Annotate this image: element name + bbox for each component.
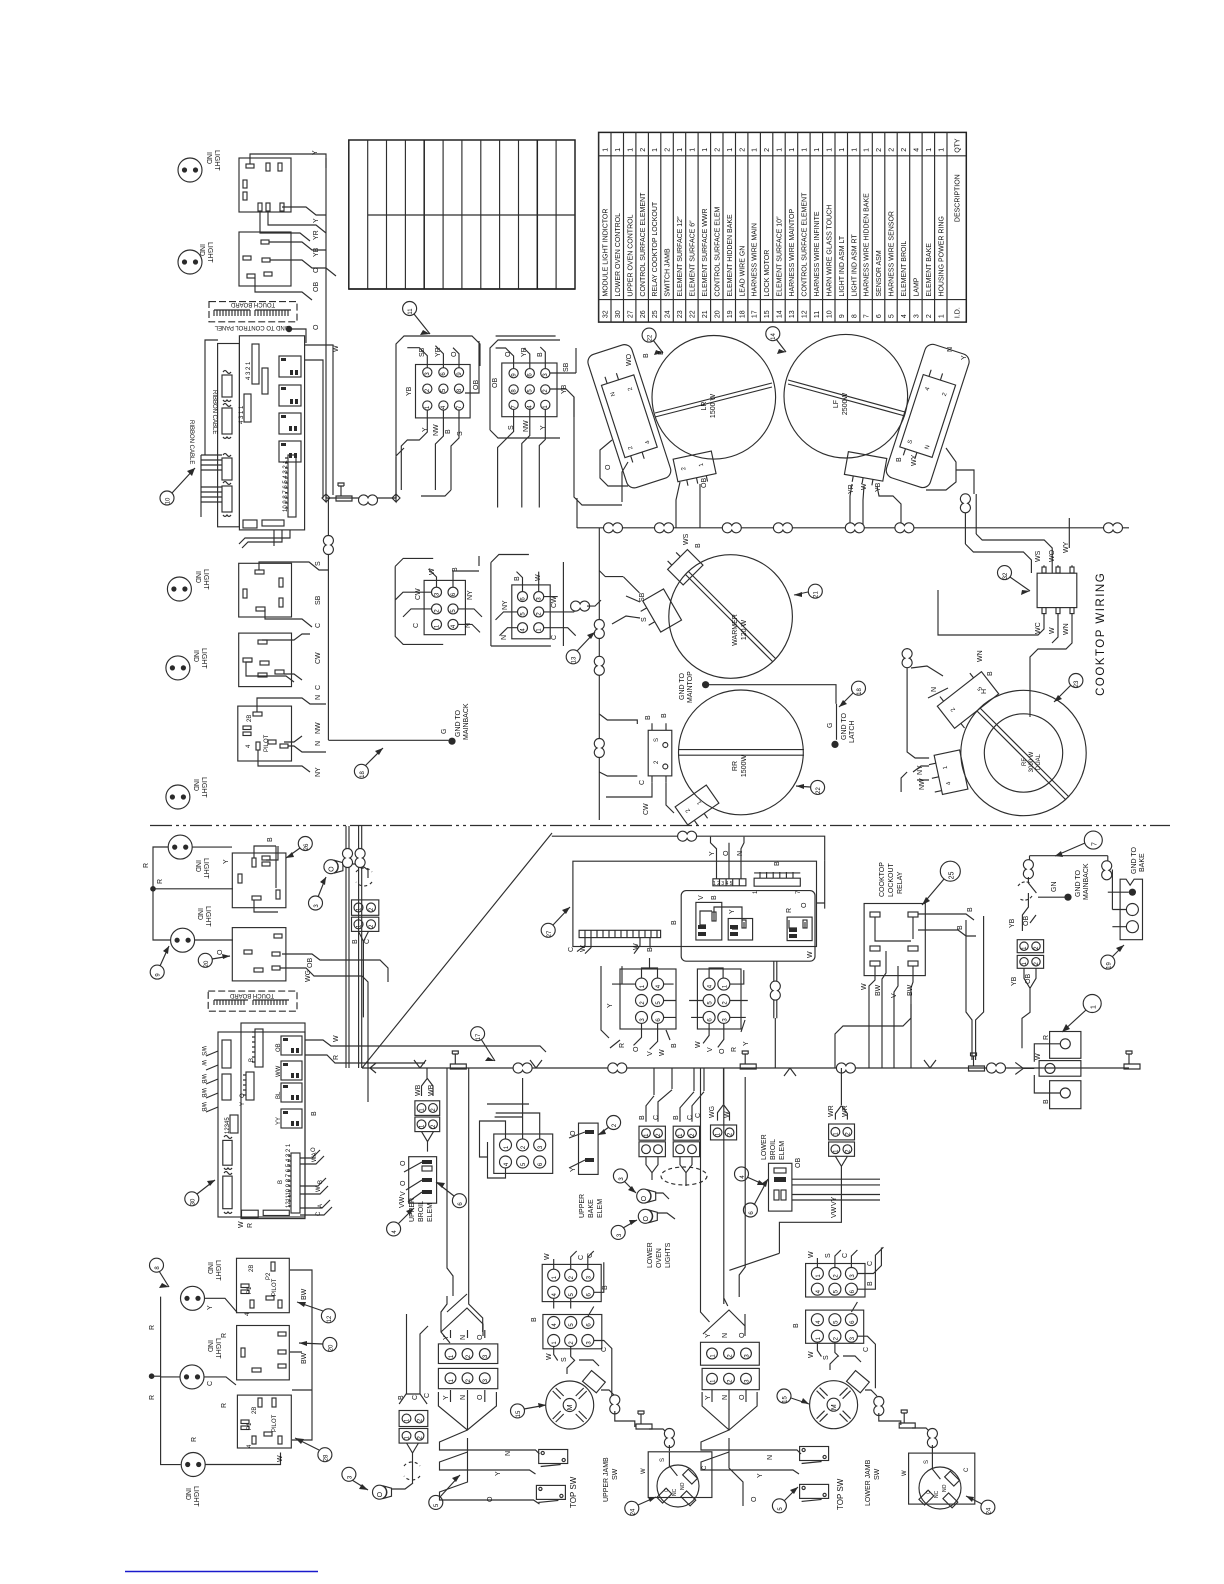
svg-text:WB: WB (428, 1084, 435, 1096)
svg-text:1: 1 (1091, 1005, 1098, 1009)
svg-text:7: 7 (1092, 842, 1099, 846)
sensor grid S3 (697, 969, 741, 1029)
svg-text:MAINBACK: MAINBACK (463, 703, 470, 740)
balloon 5b (772, 1487, 798, 1513)
svg-text:26: 26 (304, 843, 310, 850)
svg-text:LIGHTS: LIGHTS (665, 1242, 672, 1268)
connector pair BCC bottom-left (399, 1411, 428, 1444)
svg-text:1500 W: 1500 W (710, 394, 717, 419)
svg-text:13: 13 (789, 310, 796, 318)
svg-text:18: 18 (739, 310, 746, 318)
bolts on bus (450, 1051, 466, 1069)
svg-text:C: C (568, 947, 575, 952)
svg-text:1: 1 (690, 148, 697, 152)
svg-text:27: 27 (627, 310, 634, 318)
balloon 3d (342, 1467, 368, 1490)
svg-text:Y: Y (312, 150, 319, 155)
balloon 21 (794, 584, 822, 598)
connector pair CB (1x2 x2) (352, 900, 379, 932)
svg-text:N: N (501, 635, 508, 640)
connector box B3 pilot (238, 706, 292, 761)
balloon 26 (286, 837, 312, 859)
svg-text:2: 2 (901, 148, 908, 152)
svg-text:GND TO: GND TO (1131, 846, 1138, 874)
svg-text:ELEMENT HIDDEN BAKE: ELEMENT HIDDEN BAKE (727, 214, 734, 297)
svg-text:ELEM: ELEM (779, 1141, 786, 1160)
box C2 wires OB WG (280, 954, 388, 1102)
svg-text:B: B (661, 713, 668, 718)
svg-text:1: 1 (802, 148, 809, 152)
svg-text:W: W (277, 1455, 284, 1462)
svg-text:12: 12 (327, 1315, 333, 1322)
dashed rotate arc 2 (404, 1462, 420, 1466)
svg-text:1: 1 (926, 148, 933, 152)
svg-text:LIGHT: LIGHT (200, 777, 207, 798)
svg-text:O: O (719, 1048, 726, 1054)
svg-text:32: 32 (602, 310, 609, 318)
svg-text:N: N (722, 1395, 729, 1400)
svg-text:B: B (445, 429, 452, 434)
motor M1 collar (583, 1371, 606, 1393)
svg-text:Y: Y (709, 851, 716, 856)
svg-text:O: O (723, 850, 730, 856)
svg-text:LIGHT: LIGHT (200, 648, 207, 669)
svg-text:1: 1 (938, 314, 945, 318)
svg-text:LIGHT: LIGHT (214, 1260, 221, 1281)
svg-text:O: O (477, 1394, 484, 1400)
wire A1 top to bus (250, 154, 326, 168)
svg-text:11: 11 (814, 311, 821, 318)
lock sub R O (787, 917, 812, 941)
ind light LT2 (178, 250, 202, 274)
svg-text:P1: P1 (247, 1422, 253, 1430)
svg-text:PILOT: PILOT (264, 734, 270, 752)
svg-text:B: B (671, 1043, 678, 1048)
svg-text:30: 30 (615, 310, 622, 318)
svg-text:IND: IND (205, 152, 212, 164)
svg-text:1500W: 1500W (741, 755, 748, 778)
svg-text:Y: Y (223, 859, 230, 864)
svg-text:LOCKOUT: LOCKOUT (888, 862, 895, 897)
S5 wires (554, 1307, 612, 1397)
svg-text:O: O (313, 267, 320, 273)
svg-text:BAKE: BAKE (588, 1199, 595, 1218)
svg-text:LF: LF (833, 400, 840, 408)
svg-text:W: W (429, 568, 436, 575)
svg-text:RR: RR (732, 761, 739, 771)
wire above item27 (552, 836, 825, 860)
svg-text:ELEMENT BROIL: ELEMENT BROIL (901, 241, 908, 297)
element surface 6in LR 1500W (652, 336, 776, 460)
balloon 4a (387, 1208, 414, 1236)
balloon 32 (998, 566, 1031, 595)
svg-text:IND: IND (196, 908, 203, 920)
svg-text:Y: Y (313, 218, 320, 223)
svg-text:24: 24 (631, 1508, 637, 1515)
svg-text:C: C (687, 1115, 694, 1120)
svg-text:24: 24 (987, 1507, 993, 1514)
svg-text:YY: YY (276, 1117, 282, 1125)
svg-text:25: 25 (949, 872, 956, 880)
svg-text:WY: WY (911, 454, 918, 466)
svg-text:S: S (825, 1253, 832, 1258)
svg-text:BL: BL (276, 1091, 282, 1099)
svg-text:HARNESS WIRE INFINITE: HARNESS WIRE INFINITE (814, 211, 821, 297)
svg-text:10: 10 (166, 497, 172, 504)
svg-text:B: B (896, 457, 903, 462)
svg-text:SENSOR ASM: SENSOR ASM (876, 250, 883, 296)
grommets on bus (513, 1063, 532, 1073)
svg-text:NW: NW (433, 424, 440, 436)
bus right hook to power ring (1015, 1062, 1023, 1074)
svg-text:B: B (967, 907, 974, 912)
ind light LB1 (168, 835, 192, 859)
balloon 19 (1101, 945, 1124, 969)
2x3 grid H1 (424, 580, 465, 634)
svg-text:YB: YB (406, 386, 413, 396)
vertical strip conn (252, 344, 259, 384)
svg-text:21: 21 (702, 310, 709, 318)
svg-text:B: B (318, 1180, 324, 1184)
svg-text:H: H (981, 689, 988, 694)
svg-text:WARMER: WARMER (732, 614, 739, 646)
grid G2 outer route (490, 340, 622, 505)
svg-text:BW: BW (301, 1352, 308, 1364)
svg-text:B: B (537, 352, 544, 357)
svg-text:2: 2 (665, 148, 672, 152)
svg-text:SB: SB (563, 362, 570, 372)
sensor grid S1 (494, 1134, 553, 1173)
svg-text:NY: NY (467, 590, 474, 600)
LF bottom connector (843, 452, 886, 494)
svg-text:B: B (774, 861, 781, 866)
svg-text:W: W (808, 1351, 815, 1358)
ind light LT4 (166, 656, 190, 680)
svg-text:O: O (633, 1046, 640, 1052)
ind light LT5 (166, 785, 190, 809)
svg-text:1: 1 (826, 148, 833, 152)
svg-text:1: 1 (727, 148, 734, 152)
grid G2 (502, 363, 557, 417)
housing power ring (item 1) (1023, 1032, 1081, 1109)
svg-text:TOP SW: TOP SW (836, 1478, 845, 1510)
micro switch MS2a (800, 1447, 829, 1464)
svg-text:OB: OB (313, 282, 320, 292)
svg-text:22: 22 (690, 310, 697, 318)
comb strip 2 (246, 1072, 254, 1100)
svg-text:2: 2 (876, 148, 883, 152)
svg-text:LEAD WIRE GN: LEAD WIRE GN (739, 246, 746, 297)
bus vertical x326 (325, 158, 327, 498)
svg-text:1: 1 (864, 148, 871, 152)
svg-text:W: W (641, 1468, 647, 1474)
svg-text:R: R (149, 1395, 156, 1400)
balloon 2 (598, 1116, 621, 1136)
svg-text:B: B (957, 925, 964, 930)
LR connector wires to bus (600, 440, 700, 528)
svg-text:NW: NW (523, 420, 530, 432)
svg-text:C: C (664, 1488, 670, 1492)
lower oven lamp L3 (638, 1209, 657, 1223)
svg-text:S: S (823, 1355, 830, 1360)
svg-text:2: 2 (764, 148, 771, 152)
svg-text:18: 18 (360, 771, 366, 778)
svg-text:Y: Y (743, 1041, 750, 1046)
sensor grid S2 (left under item27) (620, 969, 676, 1029)
svg-text:1: 1 (627, 148, 634, 152)
svg-text:14: 14 (777, 310, 784, 318)
svg-text:WS: WS (683, 533, 690, 545)
WR funnel (729, 1068, 847, 1270)
balloon 24b (966, 1496, 995, 1514)
svg-text:C: C (639, 780, 646, 785)
broil wires left (404, 1162, 422, 1202)
item 32 terminal block (1037, 565, 1077, 615)
svg-text:CW: CW (643, 803, 650, 815)
RF connector 2 (lower) (917, 750, 968, 796)
svg-text:QTY: QTY (955, 138, 962, 153)
svg-text:19: 19 (727, 310, 734, 318)
svg-text:NW: NW (315, 722, 322, 734)
svg-text:DESCRIPTION: DESCRIPTION (955, 174, 962, 222)
svg-text:Y: Y (495, 1471, 502, 1476)
bottom tabs (242, 1210, 259, 1217)
long strip connector item27 (579, 930, 661, 937)
svg-text:RIBBON CABLE: RIBBON CABLE (211, 390, 217, 434)
svg-text:GND TO: GND TO (841, 712, 848, 740)
S3 routing (689, 968, 748, 1047)
RR connector wires (599, 714, 674, 813)
svg-text:C: C (413, 623, 420, 628)
lower control board (item 30) (200, 1023, 305, 1219)
svg-text:R: R (221, 1403, 228, 1408)
svg-text:13: 13 (572, 656, 578, 663)
svg-text:N: N (767, 1455, 774, 1460)
7 tooth comb (754, 872, 800, 886)
svg-text:OB: OB (276, 1043, 282, 1052)
svg-text:A: A (318, 1204, 324, 1208)
svg-text:N: N (505, 1451, 512, 1456)
svg-text:1: 1 (851, 148, 858, 152)
S4 wires (554, 1251, 604, 1309)
svg-text:4 3 2 1: 4 3 2 1 (246, 361, 252, 380)
svg-text:1: 1 (677, 148, 684, 152)
left multi-wires (201, 455, 222, 502)
sensor grid S4 (above motor1) (542, 1264, 601, 1301)
svg-text:B: B (793, 1323, 800, 1328)
RF wiring (901, 648, 929, 792)
svg-text:BW: BW (907, 984, 914, 996)
svg-text:B: B (673, 1115, 680, 1120)
svg-text:B: B (647, 947, 654, 952)
svg-text:Y: Y (422, 427, 429, 432)
svg-text:Y: Y (240, 1102, 246, 1106)
jamb switch J1 (641, 1452, 712, 1507)
svg-text:5: 5 (889, 314, 896, 318)
svg-text:WA: WA (312, 1153, 318, 1162)
svg-text:C: C (702, 1465, 708, 1470)
svg-text:SB: SB (639, 592, 646, 602)
grommets on main bus (604, 523, 623, 533)
svg-text:O: O (400, 1160, 407, 1166)
parts list table (599, 132, 967, 322)
svg-text:GND TO: GND TO (1075, 869, 1082, 897)
svg-text:N: N (722, 1333, 729, 1338)
svg-text:2B: 2B (249, 1265, 255, 1272)
YB OB funnel below (1022, 968, 1036, 1048)
svg-text:DUAL: DUAL (1036, 753, 1042, 770)
svg-text:R: R (786, 908, 793, 913)
svg-text:2B: 2B (252, 1407, 258, 1414)
2x3 grid H2 (512, 585, 550, 639)
pilot board P2 (item 28) (237, 1395, 291, 1448)
left fuses (222, 375, 232, 397)
svg-text:GND TO CONTROL PANEL: GND TO CONTROL PANEL (214, 324, 289, 330)
svg-text:2: 2 (889, 148, 896, 152)
balloon 30 (185, 1180, 215, 1206)
svg-text:14: 14 (771, 333, 777, 340)
svg-text:1: 1 (752, 148, 759, 152)
svg-text:24: 24 (665, 310, 672, 318)
svg-text:22: 22 (648, 334, 654, 341)
svg-text:B: B (531, 1317, 538, 1322)
svg-text:UPPER: UPPER (579, 1194, 586, 1218)
grid H2 outer + wires (491, 555, 580, 647)
svg-text:IND: IND (194, 860, 201, 872)
svg-text:C: C (964, 1467, 970, 1472)
svg-text:6: 6 (876, 314, 883, 318)
svg-text:17: 17 (752, 310, 759, 318)
svg-text:10 9 8 7 6 5 4 3 2 1: 10 9 8 7 6 5 4 3 2 1 (283, 460, 289, 512)
svg-text:121110 9 8 7 6 5 4 3 2 1: 121110 9 8 7 6 5 4 3 2 1 (286, 1143, 292, 1208)
junction triangles on bus (370, 1063, 376, 1073)
svg-text:N: N (947, 347, 954, 352)
svg-text:W: W (316, 1186, 322, 1192)
svg-text:W: W (861, 983, 868, 990)
1x3 connector YNO-R row1 (701, 1342, 760, 1365)
blank schedule grid (349, 140, 575, 289)
svg-text:Y: Y (757, 1473, 764, 1478)
right side drops from LF to item 32 (965, 494, 976, 544)
svg-text:HARNESS WIRE MAIN: HARNESS WIRE MAIN (752, 223, 759, 297)
svg-text:CW: CW (315, 652, 322, 664)
svg-text:B: B (643, 353, 650, 358)
bolt on y500 (336, 483, 352, 501)
svg-text:LOWER: LOWER (761, 1134, 768, 1160)
svg-text:26: 26 (640, 310, 647, 318)
svg-text:B: B (249, 1058, 255, 1062)
svg-text:YB: YB (1009, 918, 1016, 928)
svg-text:23: 23 (677, 310, 684, 318)
svg-text:O: O (477, 1334, 484, 1340)
svg-text:ELEM: ELEM (427, 1203, 434, 1222)
box B3 wires (257, 698, 326, 772)
balloon 7 (1055, 831, 1102, 857)
lower broil elem (769, 1163, 792, 1211)
svg-text:G: G (441, 729, 448, 734)
svg-text:W: W (807, 951, 814, 958)
svg-text:LIGHT: LIGHT (214, 1338, 221, 1359)
svg-text:LR: LR (701, 402, 708, 411)
svg-text:S: S (457, 431, 464, 436)
svg-text:W: W (695, 1041, 702, 1048)
svg-text:G: G (827, 723, 834, 728)
right vertical from relay to bus (976, 916, 984, 1060)
comb strip 1 (255, 1029, 263, 1067)
svg-text:CONTROL SURFACE ELEMENT: CONTROL SURFACE ELEMENT (640, 192, 647, 297)
RR left connector (648, 723, 672, 783)
grid G1 outer route (396, 336, 480, 498)
svg-text:WN: WN (977, 650, 984, 662)
svg-text:NY: NY (502, 600, 509, 610)
sensor grid S6 (806, 1264, 865, 1298)
svg-text:GN: GN (1051, 882, 1058, 893)
balloon 15a (511, 1403, 547, 1418)
micro switch MS2b (800, 1484, 829, 1501)
balloon 9 (150, 946, 169, 979)
svg-text:2: 2 (714, 148, 721, 152)
svg-text:BAKE: BAKE (1139, 853, 1146, 872)
warmer connector wires (599, 571, 640, 624)
balloon 22b (796, 780, 825, 794)
svg-text:WR: WR (828, 1105, 835, 1117)
WG W pair (711, 1125, 737, 1140)
svg-text:2: 2 (640, 148, 647, 152)
connector box A1 (239, 158, 291, 212)
svg-text:CONTROL SURFACE ELEM: CONTROL SURFACE ELEM (714, 206, 721, 296)
box B1 wires (259, 562, 328, 627)
vertical bus x599 (598, 528, 600, 820)
svg-text:W: W (1035, 1053, 1042, 1060)
balloon 14 (766, 327, 786, 354)
balloon 8 (150, 1258, 170, 1288)
svg-text:VW: VW (399, 1196, 406, 1208)
BC pair set2 (673, 1126, 699, 1157)
element RF 3000W DUAL (961, 690, 1086, 815)
sensor grid S7 (806, 1310, 864, 1343)
strip wires up Y O N (711, 837, 745, 879)
svg-text:MAINBACK: MAINBACK (1083, 863, 1090, 900)
svg-text:B: B (695, 543, 702, 548)
svg-text:OB: OB (492, 378, 499, 388)
svg-text:O: O (801, 902, 808, 908)
svg-text:1: 1 (789, 148, 796, 152)
svg-text:4: 4 (914, 148, 921, 152)
svg-text:W: W (546, 1353, 553, 1360)
svg-text:OB: OB (307, 958, 314, 968)
svg-text:I.D.: I.D. (955, 307, 962, 318)
svg-text:1: 1 (602, 148, 609, 152)
relays (281, 1036, 302, 1055)
balloon 5a (429, 1475, 460, 1509)
svg-text:7: 7 (864, 314, 871, 318)
svg-text:CW: CW (551, 596, 558, 608)
warmer left connector (637, 589, 682, 636)
balloon 22 (642, 328, 663, 355)
svg-text:GND TO: GND TO (455, 709, 462, 737)
dashed ellipse (661, 1167, 707, 1185)
WB funnel wires (422, 1068, 434, 1152)
svg-text:W: W (902, 1470, 908, 1476)
svg-text:WO: WO (626, 353, 633, 366)
RF connector 1 (upper) (931, 650, 1002, 733)
svg-text:32: 32 (1003, 572, 1009, 579)
svg-text:R: R (247, 1223, 254, 1228)
svg-text:ELEMENT SURFACE 12″: ELEMENT SURFACE 12″ (677, 216, 684, 297)
WR pair (829, 1124, 855, 1156)
svg-text:C: C (424, 1393, 431, 1398)
svg-text:1: 1 (814, 148, 821, 152)
